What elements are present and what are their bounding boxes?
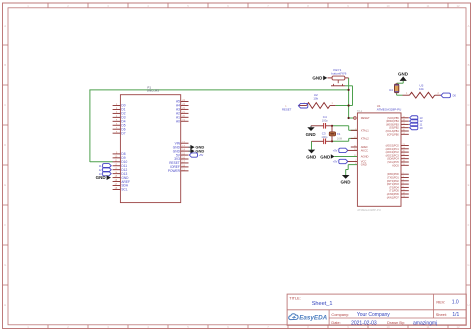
- svg-text:REV:: REV:: [436, 299, 445, 304]
- svg-text:RESET: RESET: [361, 116, 370, 120]
- svg-text:E: E: [4, 183, 6, 187]
- svg-text:6: 6: [227, 4, 229, 8]
- svg-text:GND: GND: [361, 163, 367, 167]
- svg-text:2: 2: [438, 93, 440, 95]
- svg-text:button6*6*6: button6*6*6: [331, 71, 347, 75]
- svg-text:H: H: [467, 303, 469, 307]
- svg-text:GND: GND: [320, 154, 331, 159]
- svg-text:100p: 100p: [322, 118, 328, 122]
- svg-text:D0: D0: [453, 94, 457, 98]
- svg-text:GND: GND: [341, 179, 352, 184]
- svg-text:10: 10: [386, 4, 390, 8]
- svg-text:TX-1: TX-1: [357, 110, 363, 113]
- svg-text:Company:: Company:: [331, 312, 349, 317]
- svg-text:D: D: [4, 143, 6, 147]
- svg-text:EasyEDA: EasyEDA: [299, 315, 327, 322]
- svg-text:16M: 16M: [337, 136, 343, 140]
- svg-text:(ICP1)PB0: (ICP1)PB0: [387, 133, 400, 136]
- svg-text:2021-02-03: 2021-02-03: [351, 320, 377, 326]
- svg-text:TITLE:: TITLE:: [289, 295, 301, 300]
- svg-text:GND: GND: [96, 175, 107, 180]
- svg-text:1/1: 1/1: [452, 312, 459, 318]
- svg-text:8: 8: [307, 4, 309, 8]
- svg-text:12: 12: [456, 4, 460, 8]
- svg-text:GND: GND: [312, 76, 323, 81]
- svg-text:C3: C3: [322, 132, 326, 136]
- svg-text:11: 11: [427, 4, 430, 8]
- svg-text:12: 12: [99, 168, 102, 172]
- svg-text:D: D: [467, 143, 469, 147]
- svg-text:Your Company: Your Company: [357, 312, 390, 318]
- svg-text:C: C: [467, 103, 469, 107]
- svg-text:+5V: +5V: [333, 149, 338, 153]
- svg-text:Date:: Date:: [331, 320, 340, 325]
- svg-text:A: A: [4, 24, 6, 28]
- svg-text:1.0: 1.0: [452, 300, 459, 306]
- svg-text:POWER: POWER: [168, 169, 181, 173]
- svg-text:amazingmj: amazingmj: [413, 321, 437, 327]
- svg-text:+5V: +5V: [333, 160, 338, 164]
- svg-text:C: C: [4, 103, 6, 107]
- svg-text:10k: 10k: [419, 87, 424, 91]
- svg-text:F: F: [468, 223, 470, 227]
- svg-text:Sheet_1: Sheet_1: [312, 301, 333, 307]
- svg-text:E: E: [468, 183, 470, 187]
- svg-text:100p: 100p: [321, 135, 327, 139]
- svg-text:ATMEGA328P-PU: ATMEGA328P-PU: [357, 208, 381, 212]
- svg-text:RESET: RESET: [282, 108, 292, 112]
- svg-text:F: F: [4, 223, 6, 227]
- svg-text:B: B: [468, 63, 470, 67]
- svg-text:UNO_R3: UNO_R3: [147, 89, 160, 93]
- svg-text:+5V: +5V: [199, 153, 204, 157]
- svg-text:1: 1: [355, 117, 357, 119]
- svg-text:AREF: AREF: [361, 145, 369, 149]
- svg-text:SCL: SCL: [121, 188, 127, 192]
- svg-text:Drawn By:: Drawn By:: [387, 320, 405, 325]
- svg-text:10: 10: [420, 126, 423, 130]
- svg-text:GND: GND: [398, 71, 409, 76]
- svg-text:GND: GND: [306, 154, 317, 159]
- svg-text:ATMEGA328P-PU: ATMEGA328P-PU: [377, 108, 402, 112]
- svg-text:9: 9: [347, 4, 349, 8]
- svg-text:X1: X1: [337, 132, 341, 136]
- svg-text:1: 1: [406, 93, 408, 95]
- svg-text:1: 1: [27, 4, 29, 8]
- svg-text:XTAL2: XTAL2: [361, 137, 370, 141]
- svg-text:GND: GND: [306, 132, 317, 137]
- svg-text:1: 1: [332, 103, 334, 105]
- svg-text:10k: 10k: [313, 96, 318, 100]
- svg-text:XTAL1: XTAL1: [361, 128, 370, 132]
- svg-text:3: 3: [107, 4, 109, 8]
- svg-text:2: 2: [67, 4, 69, 8]
- svg-text:ADC6: ADC6: [392, 164, 399, 167]
- svg-text:A: A: [468, 24, 470, 28]
- svg-text:A0: A0: [176, 119, 180, 123]
- svg-text:AGND: AGND: [361, 155, 369, 159]
- svg-text:U4: U4: [389, 88, 393, 92]
- svg-text:11: 11: [99, 164, 102, 168]
- svg-text:7: 7: [267, 4, 269, 8]
- svg-text:G: G: [4, 263, 6, 267]
- svg-text:H: H: [4, 303, 6, 307]
- svg-text:D7: D7: [121, 131, 125, 135]
- svg-text:AVCC: AVCC: [361, 149, 368, 153]
- svg-text:5: 5: [187, 4, 189, 8]
- svg-text:(AIN1)PD7: (AIN1)PD7: [387, 196, 400, 199]
- svg-text:4: 4: [147, 4, 149, 8]
- svg-text:G: G: [467, 263, 469, 267]
- svg-text:B: B: [4, 63, 6, 67]
- svg-text:Sheet:: Sheet:: [436, 312, 447, 317]
